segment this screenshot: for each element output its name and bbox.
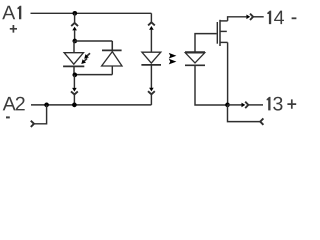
polarity plus at 13 [287,99,296,108]
node junction A2 / input branch [72,103,77,108]
diode D2 cathode lead top [111,41,113,50]
wire input branch lower segment [73,75,75,89]
terminal label A2 [3,97,25,111]
LED D1 light arrow upper [84,53,90,59]
plug contact socket chevron (13 line, opens left) [245,102,248,108]
transistor Q1 channel bar [219,20,221,46]
wire 14 line to label [254,16,264,18]
wire A1 top rail [31,12,152,14]
wire opto branch to LED [150,29,152,52]
wire opto lower to A2 [150,95,152,105]
optocoupler LED triangle [142,52,161,63]
photodiode cathode bar [185,64,205,66]
wire A2 second-terminal stub [34,105,46,124]
wire A2 bottom rail [31,104,151,106]
node junction A1 rail / input branch [72,11,77,16]
wire 13 second-terminal stub [228,105,261,122]
optocoupler light arrow lower [169,59,177,65]
plug contact socket chevron (opto lower, opens up) [148,91,155,94]
terminal label A1 [2,6,21,20]
wire input branch to network [74,30,76,41]
LED D1 light arrow lower [81,58,87,64]
photodiode triangle [185,53,204,63]
transistor Q1 gate bar [216,22,218,44]
LED D1 triangle [64,53,83,64]
wire photodiode anode to gate [195,34,217,53]
wire input branch upper segment [74,13,76,22]
plug contact pin arrow (input lower, points down) [72,88,77,92]
node junction network bottom-left [72,73,77,78]
optocoupler LED cathode bar [141,64,161,66]
wire source down to 13 junction [227,42,229,105]
plug contact socket chevron (input lower, opens up) [71,91,78,94]
plug contact socket chevron (input branch, opens down) [71,23,78,26]
wire opto branch from A1 corner [150,13,152,22]
wire drain to 14 line [228,17,247,21]
transistor Q1 source stub [220,41,228,43]
photodiode top bar [185,51,205,53]
plug contact pin arrow (input branch, points up) [72,27,77,31]
transistor Q1 drain stub [220,20,228,22]
terminal label 14 [267,11,284,25]
wire network right drop to diode [111,41,113,50]
terminal label 13 [267,97,283,111]
diode D2 cathode bar [102,49,122,51]
wire network top rail [75,40,113,42]
LED D1 cathode lead [73,66,75,75]
wire opto LED cathode lead [150,65,152,88]
wire 13 line to label [249,104,263,106]
optocoupler light arrow upper [169,53,177,59]
LED D1 cathode bar [63,65,84,67]
wire network bottom rail [75,74,113,76]
plug contact socket chevron (opto upper, opens down) [148,22,155,25]
plug contact socket chevron (A2 stub, opens left) [31,121,34,127]
polarity plus at A1 [10,25,17,33]
node junction 13 [225,103,230,108]
wire 13 line [228,104,242,106]
node junction A2 / stub [44,103,49,108]
plug contact pin arrow (14 line, points right) [246,15,250,20]
wire photodiode cathode to 13 junction [195,65,228,105]
plug contact socket chevron (13 stub, opens right) [260,118,263,124]
diode D2 triangle [102,52,122,66]
LED D1 anode lead [73,41,75,53]
node junction network top-left [72,39,77,44]
plug contact pin arrow (opto upper, points up) [149,26,154,30]
polarity minus at 14 [292,17,297,19]
polarity minus at A2 [6,116,10,118]
diode D2 anode lead bottom [111,66,113,75]
plug contact pin arrow (opto lower, points down) [149,88,154,92]
wire to A2 rail [73,95,75,105]
plug contact socket chevron (14 line, opens left) [250,14,253,20]
transistor Q1 body stub [220,30,227,32]
plug contact pin arrow (13 line, points right) [242,103,246,108]
